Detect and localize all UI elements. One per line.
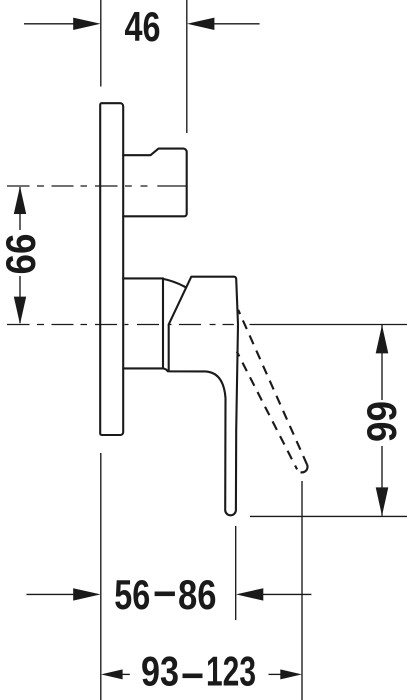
dimension 46 left arrowhead: [73, 18, 100, 30]
centerline handle axis: [7, 324, 234, 326]
valve sleeve right edge: [162, 278, 164, 368]
svg-text:123: 123: [206, 648, 256, 695]
dimension 66 down arrowhead: [14, 297, 26, 325]
extension line right of dimension 46: [186, 0, 188, 133]
dimension 99 up arrowhead: [376, 325, 389, 353]
dimension 66 line lower segment: [19, 276, 21, 323]
centerline knob axis: [7, 185, 187, 187]
handle lever body: [169, 277, 238, 516]
dimension 56-86 left leader: [27, 593, 76, 595]
alternate handle position upper dashed edge: [238, 310, 307, 465]
diverter knob: [123, 149, 187, 217]
dimension 99 line lower segment: [381, 446, 383, 516]
handle base intersection curve: [163, 279, 185, 287]
extension line plate left lower: [100, 453, 102, 700]
dimension 93-123 right arrowhead: [280, 669, 302, 679]
valve sleeve top edge: [123, 277, 163, 279]
svg-text:66: 66: [0, 234, 44, 275]
svg-text:56: 56: [114, 571, 150, 618]
wall plate: [100, 103, 123, 435]
dimension 93-123 label dash: [183, 674, 203, 679]
dimension 56-86 right arrowhead: [236, 588, 263, 600]
dimension 99 down arrowhead: [376, 487, 389, 515]
extension line lever bottom: [250, 515, 407, 517]
dimension 56-86 left arrowhead: [73, 588, 100, 600]
extension line left of dimension 46: [100, 0, 102, 87]
dimension 93-123 line left segment: [119, 673, 130, 675]
dimension 93-123 left arrowhead: [101, 669, 123, 679]
extension line alternate tip lower: [301, 481, 303, 700]
dimension 46 left leader: [24, 23, 75, 25]
dimension 66 up arrowhead: [14, 186, 26, 214]
dimension 99 line upper segment: [381, 325, 383, 400]
svg-text:93: 93: [141, 648, 179, 695]
extension line lever tip lower: [235, 526, 237, 620]
alternate handle position dashed tip arc: [297, 464, 307, 472]
dimension 56-86 label dash: [155, 592, 175, 597]
dimension 66 line upper segment: [19, 187, 21, 230]
svg-text:99: 99: [358, 401, 405, 442]
dimension 46 right leader: [213, 23, 260, 25]
svg-text:46: 46: [125, 3, 161, 50]
dimension 56-86 right leader: [263, 593, 311, 595]
svg-text:86: 86: [178, 571, 217, 618]
alternate handle position lower dashed edge: [237, 352, 297, 470]
extension line handle axis right: [250, 324, 407, 326]
dimension 46 right arrowhead: [187, 18, 214, 30]
valve sleeve bottom edge: [123, 368, 168, 371]
dimension 93-123 line right segment: [269, 673, 282, 675]
